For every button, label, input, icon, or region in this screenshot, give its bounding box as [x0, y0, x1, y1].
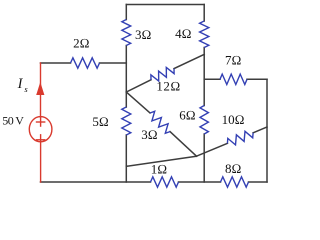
svg-text:12Ω: 12Ω	[156, 79, 181, 94]
voltage source 50V circle	[29, 117, 52, 142]
wire 7ohm branch left lead	[204, 78, 220, 80]
wire bottom horizontal between 1ohm and 8ohm	[179, 181, 221, 183]
svg-text:5Ω: 5Ω	[92, 114, 109, 129]
wire 3ohm-middle diagonal upper segment from node B	[126, 92, 150, 113]
wire red source branch lower	[40, 135, 42, 182]
resistor 2ohm zigzag	[71, 58, 100, 68]
wire right-mid vertical upper lead to 4ohm	[203, 5, 205, 22]
voltage source minus sign	[37, 139, 45, 141]
wire bottom horizontal left of 1ohm	[41, 181, 151, 183]
svg-text:8Ω: 8Ω	[225, 161, 242, 176]
svg-text:7Ω: 7Ω	[225, 52, 242, 67]
wire right vertical	[266, 79, 268, 182]
wire red source branch upper	[40, 63, 42, 117]
svg-text:2Ω: 2Ω	[73, 36, 90, 51]
resistor 8ohm zigzag	[221, 177, 249, 187]
resistor 1ohm zigzag	[151, 177, 179, 187]
svg-text:3Ω: 3Ω	[141, 127, 158, 142]
wire left vertical from 3ohm bottom through node A to node B to 5ohm top	[125, 46, 127, 108]
wire top horizontal	[126, 4, 204, 6]
current arrow Is	[36, 82, 44, 95]
wire 10ohm diagonal left segment from node C	[197, 143, 228, 156]
svg-text:10Ω: 10Ω	[222, 112, 245, 127]
voltage source plus sign	[37, 121, 45, 123]
svg-text:6Ω: 6Ω	[179, 107, 196, 122]
wire right-mid vertical from 6ohm bottom to bottom wire	[203, 134, 205, 182]
resistor 12ohm zigzag	[151, 67, 174, 81]
wire 2ohm branch left lead	[41, 62, 71, 64]
resistor 5ohm zigzag	[122, 107, 131, 135]
wire left vertical upper lead to 3ohm	[125, 5, 127, 20]
wire bottom horizontal right of 8ohm	[249, 181, 268, 183]
wire right-mid vertical from 4ohm bottom through node D and 7ohm tap to 6ohm top	[203, 48, 205, 106]
wire 3ohm-middle diagonal lower segment to node C	[170, 132, 197, 157]
wire near-horizontal from node E to node C	[126, 156, 196, 166]
svg-text:1Ω: 1Ω	[151, 162, 168, 177]
resistor 10ohm zigzag	[227, 131, 253, 145]
wire 7ohm branch right lead to corner	[247, 78, 267, 80]
svg-text:50 V: 50 V	[2, 113, 24, 127]
wire 2ohm branch right lead to node A	[100, 62, 127, 64]
resistor 6ohm zigzag	[200, 106, 208, 135]
wire 12ohm diagonal right segment to node D	[174, 54, 204, 68]
resistor 3ohm middle zigzag	[150, 111, 170, 133]
resistor 4ohm zigzag	[200, 21, 209, 48]
wire left vertical from 5ohm bottom through node E to bottom wire	[125, 135, 127, 182]
wire 12ohm diagonal left segment from node B	[126, 80, 151, 92]
wire 10ohm diagonal right segment to right vertical	[253, 127, 267, 133]
resistor 3ohm top zigzag	[122, 20, 131, 46]
svg-text:3Ω: 3Ω	[135, 27, 152, 42]
svg-text:4Ω: 4Ω	[175, 26, 192, 41]
resistor 7ohm zigzag	[220, 74, 247, 84]
